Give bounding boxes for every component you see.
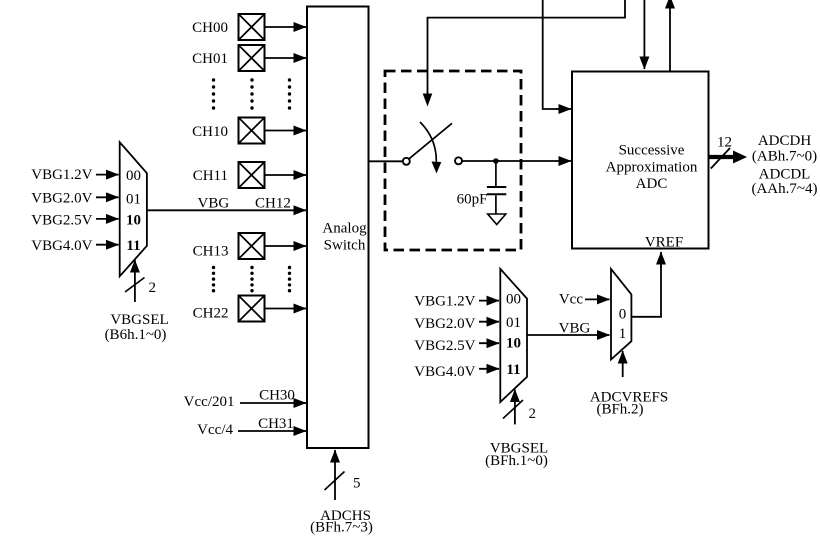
net VBG2.0V input M2 <box>414 316 499 332</box>
svg-text:0: 0 <box>619 307 627 323</box>
svg-text:1: 1 <box>619 326 627 342</box>
svg-text:VBG1.2V: VBG1.2V <box>414 294 475 310</box>
svg-text:CH22: CH22 <box>193 306 229 322</box>
svg-text:CH01: CH01 <box>192 51 228 67</box>
wire CH10 to analog switch <box>265 130 307 132</box>
svg-text:(B6h.1~0): (B6h.1~0) <box>105 327 167 343</box>
svg-text:CH12: CH12 <box>255 196 291 212</box>
wire D: ADC output up <box>669 0 671 72</box>
wire B: top feedback into sample box <box>423 0 625 107</box>
wire M3 out to VREF <box>631 254 661 317</box>
pad CH00 <box>192 14 264 40</box>
svg-text:VBG: VBG <box>198 196 230 212</box>
svg-text:(AAh.7~4): (AAh.7~4) <box>751 181 817 197</box>
svg-text:00: 00 <box>126 168 141 184</box>
pad CH22 <box>193 296 265 322</box>
svg-text:CH13: CH13 <box>193 244 229 260</box>
analog switch box U1 <box>307 7 369 449</box>
pad CH10 <box>192 118 264 144</box>
svg-text:60pF: 60pF <box>457 192 488 208</box>
svg-text:CH00: CH00 <box>192 20 228 36</box>
net VBG4.0V input M1 <box>31 238 118 254</box>
svg-text:CH30: CH30 <box>259 388 295 404</box>
svg-text:10: 10 <box>506 336 521 352</box>
mux M1 VBGSEL <box>120 142 147 276</box>
svg-text:VBG2.0V: VBG2.0V <box>414 316 475 332</box>
ellipsis dots lower <box>212 266 291 293</box>
net VBG1.2V input M2 <box>414 294 499 310</box>
select arrow M3 <box>622 351 624 377</box>
net Vcc/201 CH30 <box>184 388 306 411</box>
ground <box>488 214 506 225</box>
svg-text:CH31: CH31 <box>258 416 294 432</box>
mux M3 ADCVREFS <box>611 269 631 360</box>
dashed sample-and-hold box <box>385 71 521 250</box>
wire CH11 to analog switch <box>265 174 307 176</box>
svg-text:00: 00 <box>506 292 521 308</box>
wire A: top line into ADC left <box>543 0 558 109</box>
svg-text:CH10: CH10 <box>192 124 228 140</box>
svg-text:Successive: Successive <box>619 143 685 159</box>
svg-text:VBG2.5V: VBG2.5V <box>31 213 92 229</box>
svg-text:01: 01 <box>506 315 521 331</box>
wire CH13 to analog switch <box>265 245 307 247</box>
switch S1 closing motion arc arrow <box>420 122 441 174</box>
pad CH11 <box>193 162 265 188</box>
net VBG4.0V input M2 <box>414 364 499 380</box>
svg-text:(ABh.7~0): (ABh.7~0) <box>752 149 817 165</box>
svg-text:10: 10 <box>126 213 141 229</box>
svg-text:Vcc/4: Vcc/4 <box>197 422 233 438</box>
svg-text:ADC: ADC <box>636 176 668 192</box>
switch S1 left contact <box>403 158 410 165</box>
switch S1 blade <box>409 123 452 158</box>
net VBG2.0V input M1 <box>31 191 118 207</box>
pad CH13 <box>193 233 265 260</box>
ADC data bus 12 output arrow <box>709 135 747 169</box>
ADC box U2 <box>572 72 709 251</box>
junction node <box>493 158 499 164</box>
svg-text:01: 01 <box>126 192 141 208</box>
wire VBG from M2 to M3 <box>527 321 610 337</box>
wire CH22 to analog switch <box>265 308 307 310</box>
net VBG2.5V input M1 <box>31 213 118 229</box>
svg-text:VBG1.2V: VBG1.2V <box>31 167 92 183</box>
net Vcc input M3 <box>559 292 610 308</box>
wire VBG from M1 to CH12 input <box>147 196 306 212</box>
svg-text:(BFh.7~3): (BFh.7~3) <box>310 520 373 536</box>
svg-text:(BFh.1~0): (BFh.1~0) <box>485 453 548 469</box>
svg-text:VBG: VBG <box>559 321 591 337</box>
svg-text:Approximation: Approximation <box>606 160 698 176</box>
svg-text:VBG2.0V: VBG2.0V <box>31 191 92 207</box>
ellipsis dots upper <box>212 78 291 109</box>
wire C: top input into ADC <box>643 0 645 69</box>
switch S1 right contact <box>455 157 462 164</box>
mux M2 VBGSEL lower <box>500 269 527 402</box>
select arrow M2 with bus slash 2 <box>503 390 536 425</box>
svg-text:2: 2 <box>529 406 537 422</box>
svg-text:VREF: VREF <box>645 235 683 251</box>
label VBGSEL (B6h.1~0) <box>105 312 169 343</box>
label VBGSEL (BFh.1~0) <box>485 441 548 470</box>
svg-text:Vcc/201: Vcc/201 <box>184 394 235 410</box>
svg-text:Switch: Switch <box>324 238 366 254</box>
capacitor C1 60pF <box>457 161 507 214</box>
svg-text:VBG4.0V: VBG4.0V <box>31 238 92 254</box>
svg-text:Vcc: Vcc <box>559 292 583 308</box>
svg-text:11: 11 <box>126 238 140 254</box>
svg-text:CH11: CH11 <box>193 168 228 184</box>
svg-text:VBG4.0V: VBG4.0V <box>414 364 475 380</box>
wire CH01 to analog switch <box>265 57 307 59</box>
svg-text:VBGSEL: VBGSEL <box>110 312 168 328</box>
svg-text:(BFh.2): (BFh.2) <box>596 402 643 418</box>
net VBG2.5V input M2 <box>414 338 499 354</box>
label ADCVREFS (BFh.2) <box>590 390 668 418</box>
wire CH00 to analog switch <box>265 26 307 28</box>
label ADCHS (BFh.7~3) <box>310 508 373 536</box>
wire switch to ADC input <box>463 160 572 162</box>
net VBG1.2V input M1 <box>31 167 118 183</box>
label ADCDH ADCDL registers <box>751 133 817 197</box>
svg-text:11: 11 <box>506 362 520 378</box>
svg-text:ADCDH: ADCDH <box>758 133 812 149</box>
svg-text:2: 2 <box>149 280 157 296</box>
svg-text:Analog: Analog <box>322 221 367 237</box>
net Vcc/4 CH31 <box>197 416 306 438</box>
select arrow M1 with bus slash 2 <box>125 260 156 302</box>
select arrow ADCHS with bus slash 5 <box>325 450 361 500</box>
svg-text:5: 5 <box>353 476 361 492</box>
wire analog switch out to switch contact <box>369 160 403 162</box>
svg-text:12: 12 <box>717 135 732 151</box>
pad CH01 <box>192 45 264 71</box>
svg-text:VBG2.5V: VBG2.5V <box>414 338 475 354</box>
